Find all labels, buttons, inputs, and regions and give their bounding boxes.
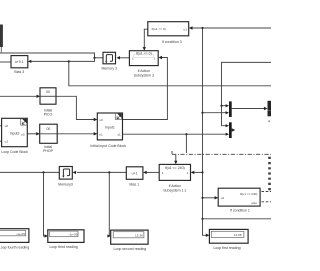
- svg-text:00: 00: [46, 90, 50, 94]
- svg-text:Loop third reading: Loop third reading: [49, 245, 77, 249]
- svg-text:Input2: Input2: [10, 131, 20, 135]
- svg-text:4: 4: [268, 120, 270, 124]
- svg-text:y1: y1: [118, 132, 122, 136]
- svg-text:Memory3: Memory3: [58, 183, 73, 187]
- svg-text:y0: y0: [21, 132, 25, 136]
- svg-text:u+1: u+1: [132, 171, 138, 175]
- svg-text:if(u1 <= 0): if(u1 <= 0): [152, 27, 166, 31]
- svg-text:Loop Code Block: Loop Code Block: [1, 150, 28, 154]
- svg-text:u0: u0: [99, 118, 103, 122]
- svg-text:Loop first reading: Loop first reading: [213, 246, 240, 250]
- svg-text:Subsystem 3: Subsystem 3: [134, 74, 154, 78]
- svg-text:Loop second reading: Loop second reading: [114, 247, 147, 251]
- svg-text:-1e-09: -1e-09: [69, 233, 78, 237]
- svg-text:Memory 3: Memory 3: [102, 66, 118, 70]
- svg-text:1: 1: [187, 171, 189, 175]
- svg-text:Bias 3: Bias 3: [14, 70, 24, 74]
- svg-text:Loop fourth reading: Loop fourth reading: [0, 245, 29, 249]
- svg-text:PICO: PICO: [44, 113, 53, 117]
- svg-text:if(u1 <= 0): if(u1 <= 0): [136, 51, 152, 55]
- svg-text:u+0.1: u+0.1: [15, 60, 24, 64]
- svg-text:14.06: 14.06: [234, 233, 242, 237]
- svg-text:else: else: [251, 201, 257, 205]
- svg-text:If Action: If Action: [138, 69, 151, 73]
- svg-text:u0: u0: [5, 124, 9, 128]
- svg-text:Bias 1: Bias 1: [129, 183, 139, 187]
- svg-text:u1: u1: [221, 196, 225, 200]
- svg-text:1: 1: [154, 56, 156, 60]
- svg-text:00: 00: [46, 127, 50, 131]
- svg-text:1: 1: [162, 171, 164, 175]
- svg-text:u1: u1: [184, 27, 188, 31]
- svg-text:if(u1 <= 240): if(u1 <= 240): [240, 192, 258, 196]
- svg-text:-1e-09: -1e-09: [16, 232, 25, 236]
- svg-text:Subsystem 1.1: Subsystem 1.1: [163, 188, 186, 192]
- svg-text:If condition 3: If condition 3: [162, 40, 182, 44]
- svg-text:if(u1 <= 240): if(u1 <= 240): [165, 166, 185, 170]
- svg-text:u1: u1: [99, 132, 103, 136]
- svg-text:Input1: Input1: [105, 126, 115, 130]
- svg-text:u1: u1: [5, 140, 9, 144]
- svg-text:15.36: 15.36: [135, 234, 143, 238]
- svg-text:If Action: If Action: [169, 184, 182, 188]
- svg-text:PHOP: PHOP: [43, 149, 54, 153]
- svg-text:If condition 1: If condition 1: [230, 208, 250, 212]
- svg-text:Initial input Code Block: Initial input Code Block: [90, 144, 126, 148]
